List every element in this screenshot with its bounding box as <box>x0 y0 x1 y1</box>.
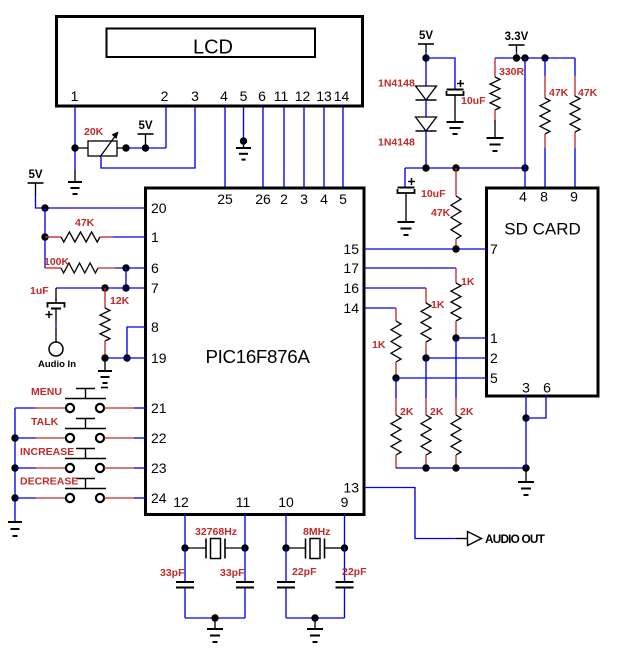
node 47K row <box>41 233 48 240</box>
svg-text:AUDIO OUT: AUDIO OUT <box>485 532 546 546</box>
svg-text:1: 1 <box>490 330 498 346</box>
wire pin6 to pin7 link <box>125 268 127 288</box>
svg-text:47K: 47K <box>431 207 451 219</box>
wire PIC pin8 jog <box>127 327 146 358</box>
svg-text:1: 1 <box>151 229 159 245</box>
audio out connector <box>456 538 467 540</box>
node rail diode <box>422 164 429 171</box>
svg-text:5: 5 <box>240 88 248 104</box>
svg-text:1K: 1K <box>431 299 445 311</box>
diode D2 1N4148 <box>416 117 437 131</box>
microphone Audio In <box>49 342 63 356</box>
svg-text:14: 14 <box>343 300 359 316</box>
wire 5V to C2 <box>426 58 455 90</box>
node pin8/19 join <box>123 354 130 361</box>
svg-text:26: 26 <box>255 191 271 207</box>
svg-text:3: 3 <box>191 88 199 104</box>
wire PIC pin9 down <box>344 514 346 548</box>
node 3.3V stem <box>513 54 520 61</box>
svg-text:5V: 5V <box>28 169 42 181</box>
power 5V at pot <box>138 133 154 135</box>
ground under C2 <box>454 95 456 122</box>
svg-text:24: 24 <box>151 490 167 506</box>
crystal X1 32768Hz <box>188 547 206 549</box>
svg-text:16: 16 <box>343 280 359 296</box>
svg-text:20K: 20K <box>84 126 104 138</box>
svg-text:9: 9 <box>570 189 578 205</box>
svg-text:10uF: 10uF <box>461 95 486 107</box>
wire SD pin1 row <box>456 337 487 339</box>
wire SD pin6 jog <box>526 396 546 418</box>
svg-text:Audio In: Audio In <box>38 359 76 370</box>
svg-text:10uF: 10uF <box>421 188 446 200</box>
svg-text:DECREASE: DECREASE <box>20 476 78 488</box>
svg-text:5: 5 <box>339 191 347 207</box>
svg-text:6: 6 <box>151 260 159 276</box>
svg-text:5: 5 <box>490 370 498 386</box>
svg-text:12: 12 <box>173 494 189 510</box>
wire R9 down to R12 <box>455 338 457 398</box>
node LCD pin5 gnd <box>240 137 247 144</box>
svg-text:2: 2 <box>490 350 498 366</box>
svg-text:5V: 5V <box>138 120 152 132</box>
svg-text:MENU: MENU <box>31 386 62 398</box>
node SD2 <box>422 354 429 361</box>
svg-text:23: 23 <box>151 460 167 476</box>
svg-text:15: 15 <box>343 241 359 257</box>
wire PIC pin10 down <box>285 514 287 548</box>
svg-text:47K: 47K <box>549 87 569 99</box>
svg-text:12: 12 <box>295 88 311 104</box>
wire pot wiper to LCD pin3 <box>101 107 195 168</box>
wire PIC pin15 to SD pin7 <box>364 248 487 250</box>
svg-text:3.3V: 3.3V <box>505 31 529 43</box>
svg-text:14: 14 <box>334 88 350 104</box>
svg-text:1: 1 <box>71 88 79 104</box>
svg-text:9: 9 <box>341 494 349 510</box>
svg-text:PIC16F876A: PIC16F876A <box>205 346 310 367</box>
svg-text:1uF: 1uF <box>30 285 49 297</box>
svg-text:10: 10 <box>278 494 294 510</box>
svg-text:11: 11 <box>236 494 251 510</box>
node rail R13 <box>422 464 429 471</box>
node SD5 <box>392 374 399 381</box>
svg-text:INCREASE: INCREASE <box>20 446 74 458</box>
ground X2 <box>314 618 316 629</box>
node bus increase <box>11 464 18 471</box>
node pot left junction <box>71 144 78 151</box>
wire audio cap to PIC pin7 <box>56 287 146 289</box>
svg-text:3: 3 <box>300 191 308 207</box>
svg-text:11: 11 <box>274 88 289 104</box>
wire PIC pin16 <box>364 287 426 289</box>
wire PIC pin17 <box>364 267 456 269</box>
wire PIC pin13 to audio out <box>364 488 456 539</box>
svg-text:21: 21 <box>151 400 167 416</box>
node SD3/6 join <box>522 414 529 421</box>
svg-text:6: 6 <box>258 88 266 104</box>
node 5V bus top <box>41 204 48 211</box>
node X2 right <box>341 544 348 551</box>
wire SD pin3 down <box>525 396 527 468</box>
svg-text:2K: 2K <box>400 406 414 418</box>
svg-text:330R: 330R <box>499 66 525 78</box>
wire cap to microphone <box>55 309 57 323</box>
resistor R14 2K <box>395 398 397 415</box>
wire R2 to PIC pin1 <box>113 236 146 238</box>
wire PIC pin11 down <box>244 514 246 548</box>
LCD display window <box>107 29 316 58</box>
potentiometer RV1 20K <box>75 147 88 149</box>
node pin6 junction <box>122 264 129 271</box>
svg-text:1K: 1K <box>461 276 475 288</box>
svg-text:8: 8 <box>540 189 548 205</box>
wire pot right to LCD pin2 <box>126 147 166 149</box>
svg-text:5V: 5V <box>419 30 433 42</box>
resistor R5 47K pullup <box>455 168 457 196</box>
capacitor C3 10uF <box>404 168 406 188</box>
node 12K bottom <box>101 354 108 361</box>
resistor R7 47K <box>544 58 546 76</box>
wire PIC pin12 down <box>184 514 186 548</box>
node 3.3V r7 <box>541 54 548 61</box>
wire LCD pin13 to PIC pin4 <box>323 107 325 188</box>
svg-text:20: 20 <box>151 200 167 216</box>
ground under R6 <box>494 120 496 138</box>
node rail SD4 <box>521 164 528 171</box>
node 5V tap <box>142 144 149 151</box>
wire button bus <box>14 408 16 522</box>
svg-text:22pF: 22pF <box>292 566 317 578</box>
node 5V diode top <box>422 54 429 61</box>
svg-text:1K: 1K <box>372 339 386 351</box>
svg-text:2K: 2K <box>430 406 444 418</box>
svg-text:LCD: LCD <box>193 37 233 59</box>
switch SW1 MENU <box>15 407 36 409</box>
svg-text:1N4148: 1N4148 <box>378 137 415 149</box>
resistor R8 47K <box>574 58 576 76</box>
resistor R10 1K <box>425 288 427 303</box>
wire D2 to VSD rail <box>425 131 427 168</box>
svg-text:3: 3 <box>522 380 530 396</box>
node SD1 <box>452 334 459 341</box>
svg-text:6: 6 <box>543 380 551 396</box>
svg-text:8MHz: 8MHz <box>303 526 330 538</box>
ground SD rail <box>525 468 527 482</box>
svg-text:4: 4 <box>519 189 527 205</box>
wire SD pin5 row <box>396 377 487 379</box>
ground button bus <box>8 521 22 523</box>
svg-text:33pF: 33pF <box>220 567 245 579</box>
wire R3 to PIC pin6 <box>115 267 146 269</box>
node pin7 link <box>122 284 129 291</box>
wire R11 down to R14 <box>395 378 397 398</box>
wire PIC pin14 <box>364 307 396 309</box>
wire LCD pin14 to PIC pin5 <box>342 107 344 188</box>
resistor R12 2K <box>455 398 457 415</box>
wire LCD pin6 to PIC pin26 <box>262 107 264 188</box>
capacitor C2 10uF <box>447 89 464 91</box>
svg-text:22: 22 <box>151 430 167 446</box>
switch SW4 DECREASE <box>15 497 36 499</box>
capacitor C4 33pF <box>184 548 186 582</box>
resistor R2 47K <box>45 236 61 238</box>
svg-text:2: 2 <box>280 191 288 207</box>
svg-text:33pF: 33pF <box>160 567 185 579</box>
wire LCD pin1 down to pot <box>74 107 76 148</box>
capacitor C6 22pF <box>285 548 287 582</box>
wire PIC pin19 row <box>105 357 146 359</box>
resistor R4 12K <box>104 288 106 308</box>
svg-text:8: 8 <box>151 319 159 335</box>
node X1 left <box>181 544 188 551</box>
svg-text:7: 7 <box>151 280 159 296</box>
wire 5V bus down <box>44 208 46 268</box>
node rail R12 <box>452 464 459 471</box>
ground X1 <box>214 618 216 629</box>
wire 3.3V rail <box>516 52 518 58</box>
capacitor C1 1uF <box>55 288 57 303</box>
svg-text:12K: 12K <box>110 295 130 307</box>
node X1 gnd <box>211 614 218 621</box>
resistor R9 1K <box>455 268 457 283</box>
wire LCD pin12 to PIC pin3 <box>303 107 305 188</box>
crystal X2 8MHz <box>289 547 306 549</box>
wire 5V to diode <box>425 52 427 86</box>
wire X2 cap join <box>286 617 345 619</box>
resistor R13 2K <box>425 398 427 415</box>
svg-text:100K: 100K <box>44 256 70 268</box>
ground under C3 <box>405 193 407 222</box>
wire D1 to D2 <box>425 100 427 117</box>
node 12K top <box>101 284 108 291</box>
wire X1 cap join <box>185 617 245 619</box>
svg-text:47K: 47K <box>578 87 598 99</box>
svg-text:TALK: TALK <box>31 416 59 428</box>
node 3.3V sd4 <box>521 54 528 61</box>
ground under LCD pin1 <box>74 170 76 182</box>
microcontroller U1 PIC16F876A <box>146 188 365 515</box>
svg-text:13: 13 <box>316 88 332 104</box>
diode D1 1N4148 <box>416 86 437 100</box>
capacitor C7 22pF <box>344 548 346 582</box>
ground at LCD pin5 <box>236 147 251 149</box>
LCD module outline <box>57 17 363 107</box>
node pin15/R5 <box>452 245 459 252</box>
node X2 gnd <box>311 614 318 621</box>
node pot right <box>122 144 129 151</box>
wire LCD pin11 to PIC pin2 <box>283 107 285 188</box>
svg-text:2K: 2K <box>460 406 474 418</box>
switch SW3 INCREASE <box>15 467 36 469</box>
ground under 12K <box>104 358 106 371</box>
power 5V diode rail <box>418 43 434 45</box>
resistor R6 330R <box>494 58 496 77</box>
wire SD pin2 row <box>426 357 487 359</box>
svg-text:SD CARD: SD CARD <box>504 220 581 239</box>
node bus talk <box>11 434 18 441</box>
svg-text:25: 25 <box>217 191 233 207</box>
node X1 right <box>241 544 248 551</box>
wire VSD rail <box>405 167 525 169</box>
switch SW2 TALK <box>15 437 36 439</box>
node X2 left <box>282 544 289 551</box>
wire 3.3V to SD pin4 <box>524 58 526 188</box>
svg-text:19: 19 <box>151 350 167 366</box>
resistor R3 100K <box>45 267 61 269</box>
wire R10 down to R13 <box>425 358 427 398</box>
wire LCD pin4 to PIC pin25 <box>224 107 226 188</box>
capacitor C5 33pF <box>244 548 246 582</box>
svg-text:4: 4 <box>220 88 228 104</box>
resistor R11 1K <box>395 308 397 321</box>
svg-text:17: 17 <box>343 260 359 276</box>
SD card module <box>487 188 599 396</box>
svg-text:4: 4 <box>320 191 328 207</box>
svg-text:7: 7 <box>490 241 498 257</box>
node rail 47K <box>452 164 459 171</box>
wire 5V to PIC pin20 <box>36 196 146 208</box>
svg-text:2: 2 <box>161 88 169 104</box>
wire LCD pin5 to ground <box>243 107 245 141</box>
wire 2K ground rail <box>396 467 526 469</box>
svg-text:1N4148: 1N4148 <box>378 78 415 90</box>
svg-text:22pF: 22pF <box>342 566 367 578</box>
svg-text:32768Hz: 32768Hz <box>195 526 237 538</box>
node rail SD3 <box>522 464 529 471</box>
svg-text:47K: 47K <box>75 217 95 229</box>
node bus decrease <box>11 494 18 501</box>
